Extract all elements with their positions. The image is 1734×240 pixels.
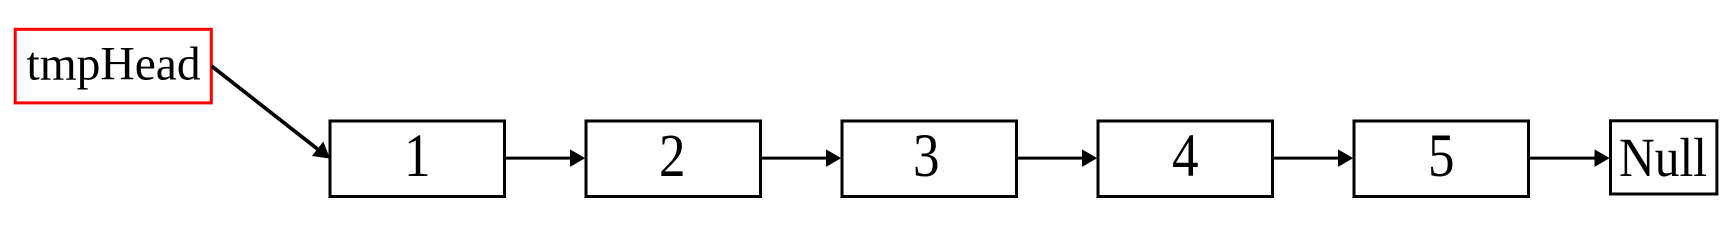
node 3 box [842,121,1017,197]
svg-text:1: 1 [404,123,431,190]
svg-text:2: 2 [659,123,686,190]
node tmpHead (red box) [15,29,211,103]
svg-text:4: 4 [1172,123,1199,190]
node 5 box [1354,121,1529,197]
node 1 box [330,121,505,197]
svg-text:5: 5 [1428,123,1455,190]
arrow tmpHead to node 1 [212,66,329,158]
node 4 box [1098,121,1273,197]
svg-text:Null: Null [1619,127,1707,188]
arrow node 4 to node 5 [1273,150,1352,166]
svg-text:3: 3 [913,123,940,190]
arrow node 3 to node 4 [1017,150,1096,166]
node Null box [1611,121,1717,194]
arrow node 5 to Null [1529,150,1609,166]
node 2 box [586,121,761,197]
svg-text:tmpHead: tmpHead [27,39,201,91]
arrow node 2 to node 3 [761,150,840,166]
arrow node 1 to node 2 [505,150,584,166]
